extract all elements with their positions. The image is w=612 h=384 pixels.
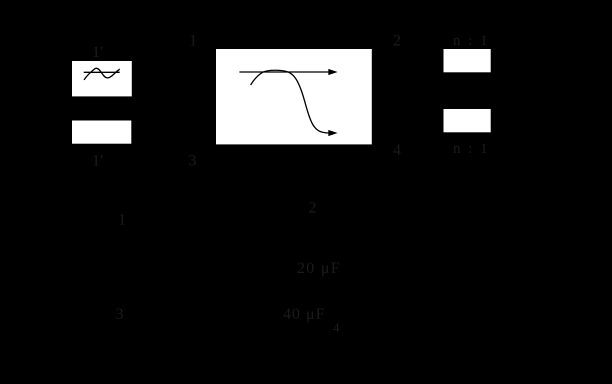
svg-text:2: 2 [393, 33, 401, 50]
svg-text:40 μF: 40 μF [283, 306, 325, 323]
svg-text:n : 1: n : 1 [453, 141, 490, 157]
svg-text:1: 1 [189, 33, 197, 50]
svg-text:3: 3 [116, 306, 124, 323]
svg-text:4: 4 [393, 142, 401, 159]
svg-text:1: 1 [118, 212, 126, 229]
svg-text:2: 2 [309, 200, 317, 217]
svg-text:4: 4 [333, 320, 340, 335]
svg-text:1′: 1′ [92, 153, 104, 170]
svg-text:20 μF: 20 μF [297, 260, 341, 277]
svg-text:1′: 1′ [92, 44, 104, 61]
svg-text:n : 1: n : 1 [453, 33, 490, 49]
svg-text:3: 3 [189, 153, 197, 170]
